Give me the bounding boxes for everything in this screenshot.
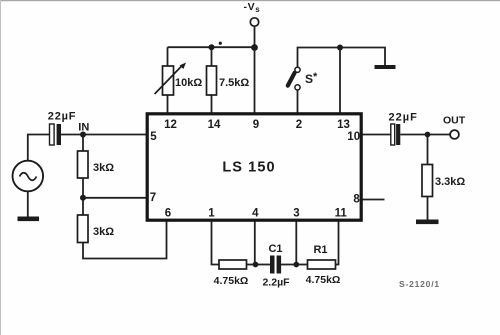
capacitor 22uF input (50, 124, 55, 145)
wire: pin3 node to R1 (296, 264, 307, 266)
wire: R1 to pin 11 (336, 220, 339, 265)
capacitor C1 2.2uF (270, 256, 275, 274)
wire: pot 10k top lead (167, 47, 169, 66)
capacitor 22uF output (391, 124, 395, 145)
svg-text:IN: IN (78, 122, 89, 134)
terminal -Vs (250, 18, 258, 26)
node: bottom rail below pin 4 (253, 262, 259, 268)
svg-text:13: 13 (337, 119, 350, 131)
switch S* (295, 67, 300, 72)
svg-text:14: 14 (208, 119, 221, 131)
ground bottom right (416, 220, 439, 225)
wire: pin 12 lead from pot bottom (167, 95, 169, 113)
svg-text:9: 9 (253, 119, 259, 131)
wire: pin 4 down (254, 220, 256, 265)
wire: source bottom to ground (27, 192, 29, 217)
wire: 4.75k to pin4 node (247, 264, 256, 266)
svg-text:3.3kΩ: 3.3kΩ (435, 176, 465, 188)
terminal OUT (450, 130, 459, 139)
node: junction above pin 13 (337, 45, 343, 51)
wire: IN node to pin 5 (61, 134, 147, 136)
svg-text:7: 7 (150, 192, 156, 204)
wire: IN node down to 3k (82, 135, 84, 152)
resistor 3k upper (78, 151, 89, 178)
wire: 3k to mid node (82, 178, 84, 215)
svg-text:2.2µF: 2.2µF (262, 277, 290, 289)
star mark (219, 42, 222, 45)
wire: mid node to pin 7 (83, 197, 147, 199)
svg-text:LS 150: LS 150 (222, 160, 275, 176)
wire: 3.3k to ground (427, 197, 429, 220)
svg-text:6: 6 (165, 208, 171, 220)
node: output junction (425, 132, 431, 138)
svg-text:4.75kΩ: 4.75kΩ (306, 274, 341, 286)
svg-text:22µF: 22µF (48, 110, 77, 122)
svg-text:10kΩ: 10kΩ (175, 77, 202, 89)
svg-text:7.5kΩ: 7.5kΩ (219, 77, 249, 89)
svg-text:OUT: OUT (443, 115, 466, 127)
wire: S* branch horizontal rail (298, 48, 386, 68)
wire: output cap to OUT terminal (400, 134, 450, 136)
svg-text:2: 2 (296, 119, 302, 131)
svg-text:3kΩ: 3kΩ (93, 162, 114, 174)
wire: pin 8 stub (361, 199, 385, 201)
svg-text:4.75kΩ: 4.75kΩ (214, 275, 249, 287)
potentiometer 10k (163, 66, 174, 95)
node: junction between 3k resistors (80, 195, 86, 201)
resistor R1 4.75k (308, 260, 336, 269)
ground bottom left (18, 217, 40, 222)
svg-text:11: 11 (335, 208, 348, 220)
scan edge top (0, 0, 500, 1)
wire: pin4 node to C1 (256, 264, 271, 266)
wire: -Vs vertical to pin 9 (254, 26, 256, 113)
wire: C1 to pin3 node (281, 264, 296, 266)
resistor 7.5k (207, 66, 217, 95)
node IN (80, 132, 86, 138)
scan edge left (0, 0, 1, 335)
svg-text:4: 4 (252, 208, 259, 220)
svg-text:S-2120/1: S-2120/1 (399, 279, 440, 289)
svg-text:R1: R1 (313, 244, 327, 256)
resistor 3k lower (78, 215, 89, 243)
node: junction at -Vs rail (251, 44, 258, 51)
svg-text:22µF: 22µF (389, 111, 418, 123)
svg-text:8: 8 (353, 194, 360, 206)
wire: lower 3k to bottom rail to pin 6 (83, 220, 167, 259)
wire: pin 14 lead from 7.5k bottom (211, 95, 213, 113)
svg-text:3kΩ: 3kΩ (93, 226, 114, 238)
ground top right (375, 65, 396, 69)
wire: out node down to 3.3k (427, 135, 429, 165)
wire: pin 1 down to bottom network (212, 220, 220, 265)
wire: input left vertical to source (28, 135, 50, 161)
wire: pin 13 vertical (339, 48, 341, 114)
svg-text:3: 3 (293, 208, 299, 220)
svg-text:12: 12 (164, 119, 177, 131)
svg-text:5: 5 (150, 131, 157, 143)
svg-text:1: 1 (208, 208, 215, 220)
svg-text:C1: C1 (268, 243, 282, 255)
source G1 (AC) (12, 161, 43, 192)
svg-text:10: 10 (347, 131, 360, 143)
wire: pin 2 lead below switch (297, 90, 299, 113)
wire: top-left horizontal rail (168, 46, 255, 48)
resistor 3.3k (422, 165, 433, 197)
wire: pin 3 down (295, 220, 297, 265)
wire: pin 10 to output cap (361, 134, 391, 136)
resistor 4.75k left (219, 260, 247, 269)
wire: 7.5k top lead (211, 47, 213, 66)
node: junction above pin 14 (209, 44, 215, 50)
node: bottom rail below pin 3 (293, 262, 299, 268)
IC U1 LS 150 (147, 114, 361, 220)
